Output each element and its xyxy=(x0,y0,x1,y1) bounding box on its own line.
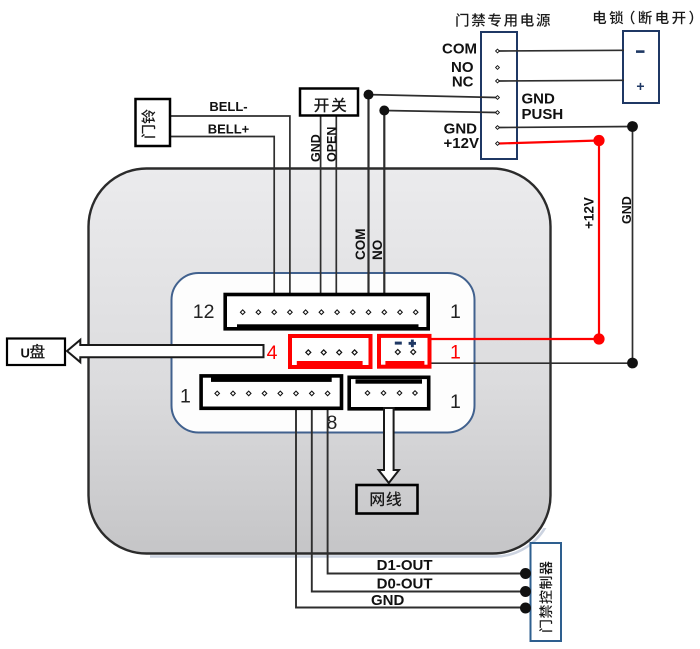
junction dot A (COM) xyxy=(364,90,374,100)
junction dot B (NO) xyxy=(379,106,389,116)
wire +12V red from power to net xyxy=(499,141,599,144)
wire +12V red vertical to J3 xyxy=(432,141,600,340)
access controller label (rotated) xyxy=(539,561,552,632)
wire OPEN from switch to J1 pin7 xyxy=(335,115,337,308)
label +12V (vertical) xyxy=(582,197,597,229)
wire power NC pin to lock plus xyxy=(499,79,624,82)
controller node dot D1 xyxy=(520,568,531,579)
doorbell box xyxy=(136,99,171,146)
wire D1-OUT from J4 pin8 to controller xyxy=(328,396,526,574)
node dot +12V bottom (red) xyxy=(593,333,604,344)
USB arrow to U盘 xyxy=(67,340,264,362)
svg-text:COM: COM xyxy=(353,229,368,261)
svg-text:GND: GND xyxy=(620,196,634,224)
wire COM from junction A down to J1 pin9 xyxy=(367,95,369,308)
svg-text:12: 12 xyxy=(193,301,215,323)
label COM (vertical) xyxy=(353,229,368,261)
wire BELL+ from doorbell to J1 pin3 xyxy=(170,137,274,309)
wire junction B to power PUSH pin xyxy=(384,111,496,113)
wire junction A to power GND pin xyxy=(369,95,497,98)
网线 box xyxy=(357,485,418,514)
wire D0-OUT from J4 pin7 to controller xyxy=(312,396,526,592)
connector J3 red power input xyxy=(379,336,430,367)
label NO (vertical) xyxy=(370,240,385,260)
wire GND from switch to J1 pin6 xyxy=(320,115,322,308)
svg-text:8: 8 xyxy=(327,412,338,434)
svg-text:U: U xyxy=(21,346,30,361)
electric lock box xyxy=(623,31,659,103)
svg-text:COM: COM xyxy=(442,41,477,58)
power supply pins xyxy=(496,49,500,145)
wire BELL- from doorbell to J1 pin4 xyxy=(170,116,290,308)
electric lock title xyxy=(594,11,693,25)
network down arrow xyxy=(379,408,399,483)
access controller box xyxy=(531,543,562,641)
wire GND from J4 pin6 to controller xyxy=(296,396,526,608)
doorbell label (rotated) xyxy=(141,109,155,137)
svg-text:NC: NC xyxy=(452,74,474,91)
node dot GND bottom xyxy=(627,358,638,369)
svg-text:1: 1 xyxy=(450,342,461,364)
wire power GND pin to GND net right xyxy=(499,127,633,128)
controller node dot D0 xyxy=(520,586,531,597)
U盘 box xyxy=(7,339,65,366)
网线 label xyxy=(371,491,402,506)
svg-text:D0-OUT: D0-OUT xyxy=(377,576,433,593)
connector J1 12-pin header xyxy=(225,295,428,330)
wire power COM pin to lock minus xyxy=(499,49,624,52)
svg-text:GND: GND xyxy=(309,134,323,162)
svg-text:1: 1 xyxy=(450,301,461,323)
svg-text:NO: NO xyxy=(370,240,385,260)
access control device body xyxy=(89,169,551,554)
svg-text:BELL-: BELL- xyxy=(209,99,247,114)
label OPEN (vertical, switch) xyxy=(325,127,339,162)
label GND (vertical right) xyxy=(620,196,634,224)
switch label xyxy=(314,98,346,113)
svg-text:BELL+: BELL+ xyxy=(208,122,250,137)
lock minus terminal xyxy=(636,50,645,53)
inner connector panel xyxy=(172,273,475,433)
wire NO from junction B down to J1 pin10 xyxy=(383,111,385,309)
svg-text:PUSH: PUSH xyxy=(522,106,564,123)
svg-text:+12V: +12V xyxy=(444,135,479,152)
connector J2 red 4-pin (USB) xyxy=(290,336,371,368)
svg-text:4: 4 xyxy=(267,342,278,364)
svg-text:1: 1 xyxy=(180,386,191,408)
svg-text:1: 1 xyxy=(450,391,461,413)
svg-text:D1-OUT: D1-OUT xyxy=(377,557,433,574)
connector J5 4-pin network xyxy=(349,377,429,409)
label GND (vertical, switch) xyxy=(309,134,323,162)
node dot +12V top (red) xyxy=(593,135,604,146)
power supply box xyxy=(481,32,517,159)
svg-text:+12V: +12V xyxy=(582,197,597,229)
svg-text:+: + xyxy=(636,78,644,94)
svg-text:OPEN: OPEN xyxy=(325,127,339,162)
controller node dot GND xyxy=(520,603,531,614)
switch box xyxy=(300,89,358,116)
connector J4 8-pin header xyxy=(201,376,341,408)
power supply title xyxy=(456,13,550,27)
wire GND net vertical down xyxy=(432,127,633,364)
svg-text:GND: GND xyxy=(522,91,556,108)
svg-text:GND: GND xyxy=(371,592,405,609)
node dot GND top xyxy=(627,121,638,132)
